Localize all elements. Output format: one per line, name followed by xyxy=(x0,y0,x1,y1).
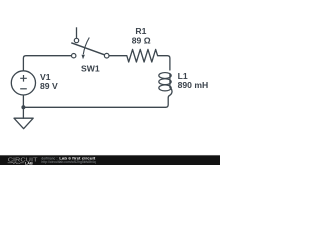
inductor L1 loop 3 xyxy=(159,85,171,91)
svg-text:LAB: LAB xyxy=(25,161,33,166)
svg-text:89 Ω: 89 Ω xyxy=(132,35,151,45)
wire top-left rail from V1 to SW1 left terminal xyxy=(23,56,71,71)
svg-text:http://circuitlab.com/c/62hg5k: http://circuitlab.com/c/62hg5kfs8b4q xyxy=(41,160,95,164)
SW1 right terminal circle xyxy=(104,53,109,58)
junction node xyxy=(21,105,25,109)
svg-text:89 V: 89 V xyxy=(40,81,58,91)
inductor L1 loop 1 xyxy=(159,73,171,79)
ground xyxy=(14,118,33,129)
switch SW1 xyxy=(71,27,109,59)
wire R1 to top-right corner down to L1 xyxy=(158,56,170,70)
SW1 actuation arrow xyxy=(83,38,89,55)
voltage source V1 xyxy=(11,71,35,95)
wire L1 bottom to bottom rail xyxy=(23,88,172,107)
svg-text:SW1: SW1 xyxy=(81,63,100,73)
SW1 lever arm xyxy=(71,43,104,55)
wire V1 bottom to junction to ground xyxy=(22,95,24,118)
SW1 left terminal circle xyxy=(72,54,76,58)
footer logo zigzag xyxy=(8,162,24,164)
SW1 top throw stub xyxy=(76,27,78,38)
svg-text:890 mH: 890 mH xyxy=(178,80,209,90)
wire SW1 right terminal to R1 xyxy=(109,55,127,57)
inductor L1 coil lead xyxy=(169,74,171,89)
inductor L1 loop 2 xyxy=(159,79,171,85)
SW1 top terminal circle xyxy=(74,38,78,42)
resistor R1 xyxy=(127,49,158,62)
